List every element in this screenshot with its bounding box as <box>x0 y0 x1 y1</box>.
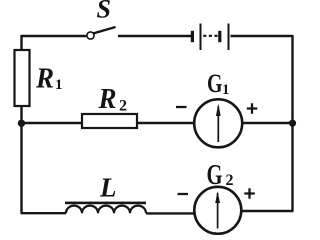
svg-text:G: G <box>207 160 223 191</box>
svg-text:G: G <box>207 69 223 98</box>
svg-text:1: 1 <box>222 82 230 98</box>
svg-text:R: R <box>35 63 54 95</box>
svg-text:2: 2 <box>226 172 234 189</box>
svg-text:S: S <box>97 0 111 24</box>
svg-text:R: R <box>98 84 117 115</box>
svg-text:2: 2 <box>119 98 127 115</box>
svg-text:L: L <box>99 173 117 203</box>
svg-text:1: 1 <box>55 77 63 93</box>
